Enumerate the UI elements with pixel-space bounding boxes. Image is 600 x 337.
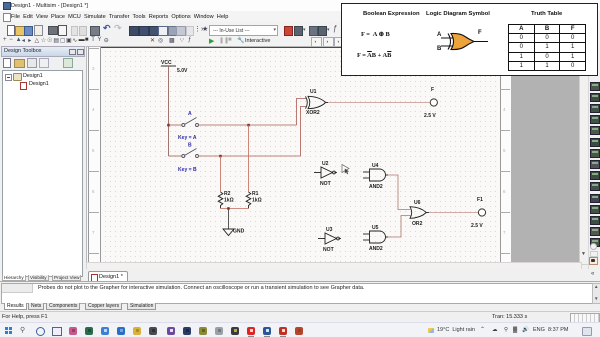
NOT gate U2 [314, 167, 337, 178]
U4 type label AND2 [369, 184, 383, 190]
U3 type label NOT [323, 247, 335, 253]
VCC label [161, 60, 172, 66]
junction node A / R1 tap [247, 124, 250, 127]
svg-text:U3: U3 [326, 227, 333, 233]
U4 reference label [372, 163, 379, 169]
U2 type label NOT [320, 181, 332, 187]
svg-text:R1: R1 [252, 191, 259, 197]
GND label [233, 229, 245, 235]
resistor R2 label [224, 191, 231, 197]
switch B key label Key = B [178, 167, 197, 173]
gray out-of-sheet region [511, 47, 579, 263]
svg-text:F: F [478, 30, 482, 36]
wire U4 output to U6 input [388, 175, 411, 210]
svg-text:VCC: VCC [161, 60, 172, 66]
wire resistor bottoms to ground bus [221, 207, 249, 210]
XOR gate U1 [306, 96, 329, 108]
power symbol VCC [161, 65, 176, 67]
probe F1 label [477, 197, 483, 203]
U2 reference label [322, 161, 329, 167]
resistor R1 label [252, 191, 259, 197]
svg-text:2.5 V: 2.5 V [424, 113, 436, 119]
svg-text:Key = B: Key = B [178, 167, 197, 173]
svg-text:NOT: NOT [323, 247, 335, 253]
sheet outer border lines [89, 47, 510, 48]
U6 reference label [414, 200, 421, 206]
probe F label [431, 87, 434, 93]
probe F [430, 99, 437, 106]
wire VCC to switch A [168, 66, 170, 125]
svg-text:GND: GND [233, 229, 245, 235]
probe F1 [478, 209, 485, 216]
mouse cursor ghost gate next to U2 [342, 165, 349, 175]
wire into switch A [169, 124, 182, 126]
switch A key label Key = A [178, 135, 197, 141]
OR gate U6 [410, 207, 429, 219]
bottom tabs [1, 275, 85, 283]
panel toolbar [3, 58, 11, 68]
svg-text:Key = A: Key = A [178, 135, 197, 141]
resistor R2 [218, 192, 223, 208]
svg-text:NOT: NOT [320, 181, 332, 187]
svg-text:U4: U4 [372, 163, 379, 169]
U1 type label XOR2 [306, 110, 320, 116]
ground [223, 229, 234, 236]
wire R2 top feed [220, 156, 222, 192]
wire node A: switch A to XOR input (horizontal) [199, 124, 297, 126]
junction node B / R2 tap [219, 155, 222, 158]
canvas horizontal scrollbar [86, 262, 582, 271]
U1 reference label [310, 89, 317, 95]
svg-text:OR2: OR2 [412, 221, 423, 227]
svg-text:2.5 V: 2.5 V [471, 223, 483, 229]
svg-text:AND2: AND2 [369, 184, 383, 190]
wire R1 top feed [248, 125, 250, 192]
junction ground node [227, 207, 230, 210]
wire switch A to switch B (vertical) [168, 125, 170, 156]
sheet left margin strip [88, 47, 101, 262]
svg-text:A: A [437, 32, 442, 38]
svg-text:U1: U1 [310, 89, 317, 95]
svg-text:1kΩ: 1kΩ [224, 198, 234, 204]
svg-text:U2: U2 [322, 161, 329, 167]
svg-text:U5: U5 [372, 225, 379, 231]
switch A label A [188, 111, 192, 117]
wire to ground [228, 209, 230, 230]
switch B label B [188, 143, 192, 149]
svg-text:5.0V: 5.0V [177, 68, 188, 74]
U5 type label AND2 [369, 246, 383, 252]
svg-text:1kΩ: 1kΩ [252, 198, 262, 204]
wire into switch B [169, 155, 182, 157]
U6 type label OR2 [412, 221, 423, 227]
NOT gate U3 [318, 233, 341, 244]
wire U5 output to U6 input [388, 216, 411, 238]
svg-text:AND2: AND2 [369, 246, 383, 252]
svg-text:A: A [188, 111, 192, 117]
AND gate U5 [363, 231, 388, 243]
wire node B: switch B to XOR input (horizontal) [199, 155, 301, 157]
VCC value label 5.0V [177, 68, 188, 74]
resistor R2 value 1k ohm [224, 198, 234, 204]
wire node B vertical rise to U1 pin [301, 107, 307, 157]
probe F1 reading 2.5 V [471, 223, 483, 229]
canvas vertical scrollbar [579, 46, 590, 265]
sheet right margin strip [500, 47, 512, 263]
svg-text:U6: U6 [414, 200, 421, 206]
probe F reading 2.5 V [424, 113, 436, 119]
truth table [508, 24, 586, 71]
resistor R1 [246, 192, 251, 208]
svg-text:XOR2: XOR2 [306, 110, 320, 116]
svg-text:F: F [431, 87, 434, 93]
wire node A vertical rise to U1 pin [297, 99, 307, 126]
wire U6 output to probe F1 [429, 212, 478, 214]
switch B (SPST, Key = B) [182, 149, 199, 158]
svg-text:B: B [437, 46, 442, 52]
XOR gate symbol (overlay) [432, 24, 492, 56]
wire U1 output to probe F [328, 102, 430, 104]
junction at VCC / switch A node [167, 124, 170, 127]
switch A (SPST, Key = A) [182, 118, 199, 127]
AND gate U4 [363, 169, 388, 181]
svg-text:R2: R2 [224, 191, 231, 197]
resistor R1 value 1k ohm [252, 198, 262, 204]
tree area [2, 70, 83, 277]
U5 reference label [372, 225, 379, 231]
U3 reference label [326, 227, 333, 233]
bottom tabs [1, 303, 3, 312]
svg-text:F1: F1 [477, 197, 483, 203]
svg-text:B: B [188, 143, 192, 149]
